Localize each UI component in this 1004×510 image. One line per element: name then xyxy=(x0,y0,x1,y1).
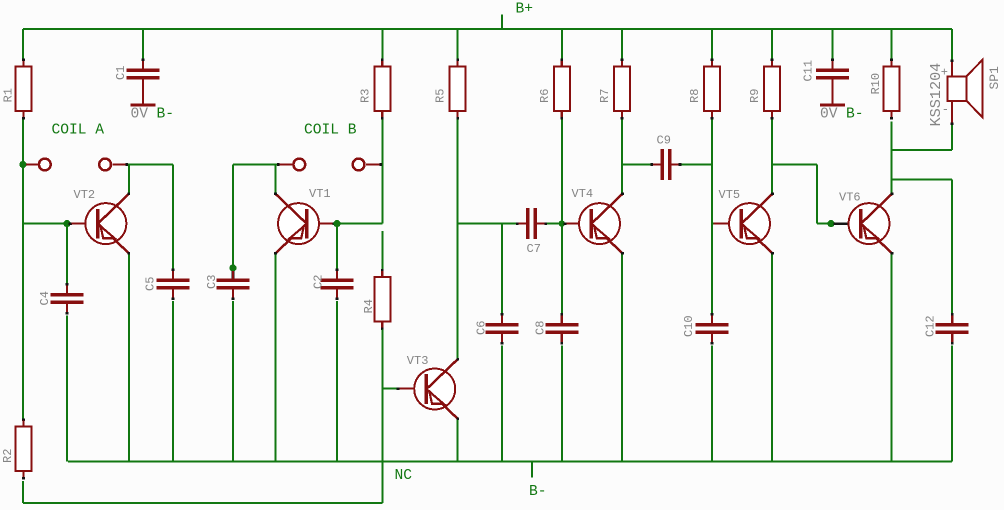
svg-text:C7: C7 xyxy=(527,242,541,256)
svg-text:C3: C3 xyxy=(205,275,219,289)
svg-text:VT2: VT2 xyxy=(74,188,96,202)
svg-text:VT3: VT3 xyxy=(407,354,429,368)
svg-text:VT6: VT6 xyxy=(839,191,861,205)
svg-text:B-: B- xyxy=(529,484,547,500)
svg-text:C4: C4 xyxy=(38,291,52,305)
svg-text:R9: R9 xyxy=(748,89,762,103)
svg-text:B-: B- xyxy=(846,107,864,123)
svg-text:R1: R1 xyxy=(2,88,16,102)
svg-text:VT5: VT5 xyxy=(719,188,741,202)
svg-text:R7: R7 xyxy=(598,89,612,103)
svg-text:R2: R2 xyxy=(1,449,15,463)
svg-text:0V: 0V xyxy=(820,107,838,123)
svg-text:C9: C9 xyxy=(657,134,671,148)
svg-text:VT1: VT1 xyxy=(309,187,331,201)
svg-text:R10: R10 xyxy=(869,73,883,95)
svg-text:R4: R4 xyxy=(362,299,376,313)
svg-text:C2: C2 xyxy=(312,275,326,289)
svg-text:B+: B+ xyxy=(516,2,534,18)
svg-text:C8: C8 xyxy=(534,321,548,335)
svg-text:C12: C12 xyxy=(924,315,938,337)
svg-text:R5: R5 xyxy=(434,89,448,103)
svg-text:0V: 0V xyxy=(131,107,149,123)
svg-text:COIL A: COIL A xyxy=(52,123,105,139)
svg-text:R3: R3 xyxy=(358,89,372,103)
svg-text:R8: R8 xyxy=(688,89,702,103)
svg-text:COIL B: COIL B xyxy=(304,123,357,139)
svg-text:C6: C6 xyxy=(475,321,489,335)
svg-text:SP1: SP1 xyxy=(987,66,1002,90)
svg-text:C1: C1 xyxy=(114,66,128,80)
svg-text:C11: C11 xyxy=(802,60,816,82)
svg-text:VT4: VT4 xyxy=(572,187,594,201)
svg-text:R6: R6 xyxy=(538,89,552,103)
svg-text:+: + xyxy=(941,66,948,80)
svg-text:C5: C5 xyxy=(144,277,158,291)
svg-text:-: - xyxy=(942,103,949,117)
svg-text:NC: NC xyxy=(395,468,413,484)
svg-text:B-: B- xyxy=(157,107,175,123)
svg-text:C10: C10 xyxy=(682,315,696,337)
